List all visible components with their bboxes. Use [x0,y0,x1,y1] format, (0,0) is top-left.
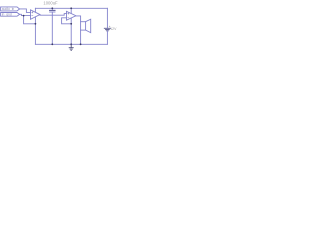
port P2 in_gnd box [1,13,20,17]
wire battery bottom lead [106,31,108,44]
speaker LS1 bottom wire [80,30,82,44]
op-amp U1 triangle [31,10,41,19]
op-amp U2 ground pin [70,18,72,24]
battery BT1 long plate [104,27,110,29]
battery plus sign [109,26,110,27]
battery BT1 mid plate [106,29,110,31]
wire battery top lead [106,8,108,28]
speaker LS1 box [81,22,86,30]
op-amp U2 triangle [67,11,76,20]
ground symbol [69,44,74,50]
wire port P1 to op-amp U1 +in [20,9,31,13]
node dot U1 ground [35,23,37,25]
svg-text:1000uF: 1000uF [43,1,58,6]
wire U2 ground node to bottom rail [70,24,72,45]
wire top supply rail [35,7,107,9]
op-amp U1 plus minus [31,12,33,16]
capacitor C1 lead bottom to ground rail [51,12,53,44]
wire U2 -in loop [62,18,72,24]
svg-text:12V: 12V [110,27,117,31]
node dot rail cap [51,7,53,9]
wire U2 output to speaker LS1 [76,16,81,22]
node dot rail U2 power [70,7,72,9]
capacitor C1 lead top [51,8,53,10]
node dot U2 ground [70,23,72,25]
node dot port2/feedback [23,15,25,17]
wire bottom ground rail [35,43,107,45]
wire port P2 to op-amp U1 -in [20,14,31,15]
battery BT1 short plate [107,30,108,32]
capacitor C1 plate top [50,9,55,11]
junction dots [23,7,82,45]
op-amp U2 plus minus [67,13,69,18]
wire U1 ground node down to bottom rail [34,24,36,45]
wire U1 output to U2 +in [40,14,67,16]
node dot bottom rail gnd [70,43,72,45]
port P1 audio_in box [1,7,20,11]
svg-text:audio_in: audio_in [2,7,15,11]
wire feedback loop U1 [24,16,36,24]
op-amp U2 power pin [70,8,72,13]
svg-text:in_gnd: in_gnd [2,13,12,17]
speaker LS1 cone [86,19,91,33]
capacitor C1 plate bottom [50,11,55,13]
node dot bottom rail cap [51,43,53,45]
op-amp U1 ground pin [34,17,36,24]
op-amp U1 power pin [34,8,36,12]
node dot bottom rail speaker [80,43,82,45]
